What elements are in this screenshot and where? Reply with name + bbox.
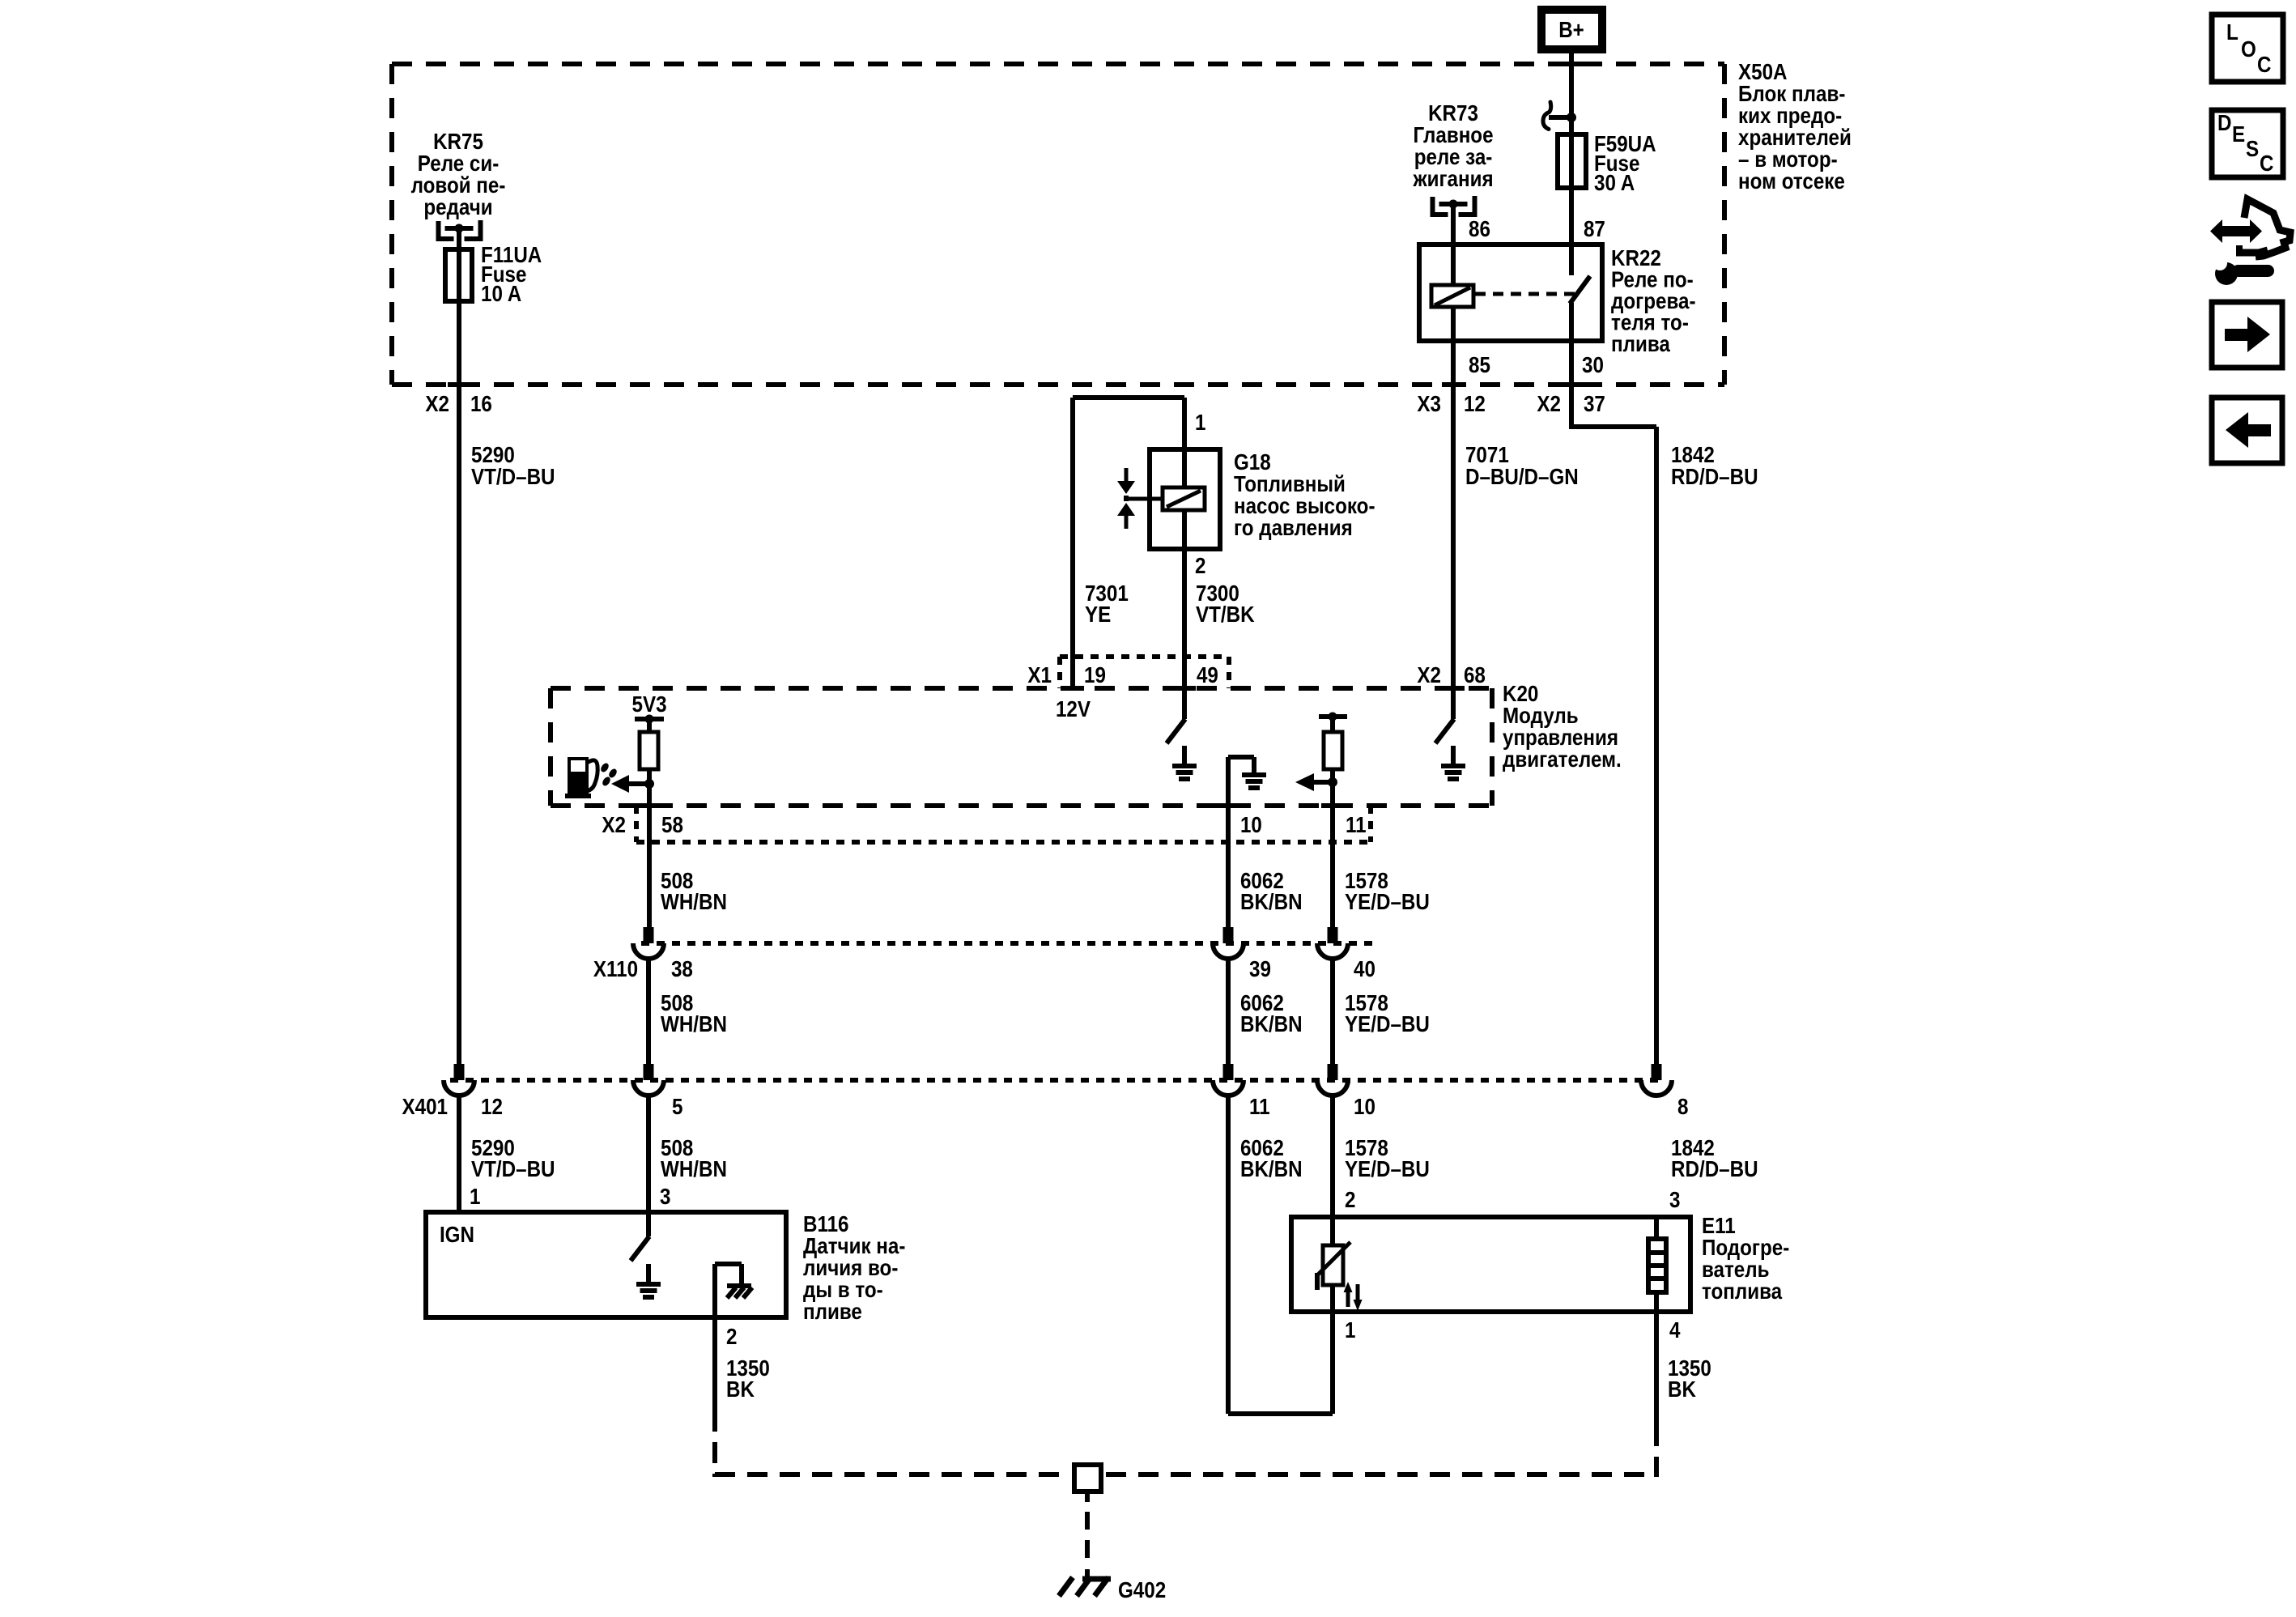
K20 low-side driver switch pin 49 xyxy=(1182,688,1187,719)
svg-text:L: L xyxy=(2226,21,2239,45)
svg-text:BK/BN: BK/BN xyxy=(1240,1158,1303,1182)
svg-text:G18: G18 xyxy=(1234,451,1271,475)
svg-text:насос высоко-: насос высоко- xyxy=(1234,495,1375,519)
svg-text:O: O xyxy=(2241,38,2256,62)
svg-text:X50A: X50A xyxy=(1738,61,1788,85)
svg-text:VT/D–BU: VT/D–BU xyxy=(471,466,555,490)
svg-text:2: 2 xyxy=(726,1326,737,1350)
svg-text:WH/BN: WH/BN xyxy=(661,891,727,915)
svg-text:87: 87 xyxy=(1584,218,1605,242)
svg-text:19: 19 xyxy=(1084,664,1106,688)
svg-text:Главное: Главное xyxy=(1414,124,1494,148)
svg-text:RD/D–BU: RD/D–BU xyxy=(1671,1158,1758,1182)
svg-text:E11: E11 xyxy=(1702,1215,1736,1239)
svg-text:30: 30 xyxy=(1582,354,1604,378)
inline connector X110 xyxy=(641,941,1376,946)
wire 7300 G18 to K20 pin 49 xyxy=(1182,549,1187,688)
fuel pump G18 wire loop xyxy=(1073,395,1184,400)
relay coil feed symbol KR75 xyxy=(439,221,454,239)
ground inside K20 pin 10 xyxy=(1242,772,1266,777)
svg-text:ном отсеке: ном отсеке xyxy=(1738,170,1845,194)
ground inside B116 xyxy=(646,1264,651,1284)
svg-text:11: 11 xyxy=(1346,814,1367,838)
svg-text:X401: X401 xyxy=(402,1096,447,1120)
relay coil feed symbol KR73 xyxy=(1433,197,1448,215)
svg-text:X2: X2 xyxy=(1537,393,1561,417)
svg-text:2: 2 xyxy=(1345,1189,1355,1213)
B116 internal switch xyxy=(646,1212,651,1236)
svg-text:BK: BK xyxy=(1668,1378,1696,1402)
svg-text:1: 1 xyxy=(470,1185,480,1210)
svg-text:YE: YE xyxy=(1085,603,1111,628)
svg-text:39: 39 xyxy=(1249,958,1271,982)
water-in-fuel sensor B116 box xyxy=(426,1212,786,1317)
thermistor symbol E11 xyxy=(1330,1217,1335,1245)
svg-text:D: D xyxy=(2217,112,2231,136)
ground inside K20 under pin 49 xyxy=(1182,746,1187,766)
svg-text:догрева-: догрева- xyxy=(1611,290,1695,314)
battery B+ terminal xyxy=(1541,10,1602,49)
svg-text:B+: B+ xyxy=(1558,19,1584,43)
svg-text:12: 12 xyxy=(1464,393,1486,417)
fuse block X50A dashed box xyxy=(392,62,1724,66)
svg-text:BK/BN: BK/BN xyxy=(1240,891,1303,915)
svg-text:E: E xyxy=(2232,123,2245,147)
svg-text:двигателем.: двигателем. xyxy=(1503,748,1622,772)
svg-text:58: 58 xyxy=(661,814,683,838)
svg-text:5290: 5290 xyxy=(471,444,515,468)
svg-text:Реле си-: Реле си- xyxy=(418,152,500,177)
svg-text:37: 37 xyxy=(1584,393,1605,417)
svg-text:2: 2 xyxy=(1195,555,1205,579)
svg-text:теля то-: теля то- xyxy=(1611,311,1689,335)
pump motor symbol xyxy=(1182,449,1187,487)
wire 508 X110 to X401 xyxy=(646,959,651,1064)
svg-text:YE/D–BU: YE/D–BU xyxy=(1345,1158,1430,1182)
svg-text:B116: B116 xyxy=(803,1213,848,1237)
dashed wire 1350 right xyxy=(1654,1425,1659,1477)
svg-text:10: 10 xyxy=(1240,814,1262,838)
junction dot pin 11 xyxy=(1328,777,1337,787)
svg-text:реле за-: реле за- xyxy=(1414,146,1493,170)
chassis ground symbol B116 xyxy=(727,1283,751,1288)
K20 ground hook pin 10 xyxy=(1228,755,1254,760)
svg-text:10 A: 10 A xyxy=(481,283,521,307)
svg-text:хранителей: хранителей xyxy=(1738,126,1852,151)
fuel heater E11 box xyxy=(1291,1217,1690,1312)
svg-text:WH/BN: WH/BN xyxy=(661,1158,727,1182)
relay KR22 box xyxy=(1419,245,1602,341)
svg-text:K20: K20 xyxy=(1503,683,1538,707)
junction dot pin 58 wire xyxy=(644,779,654,789)
svg-text:ватель: ватель xyxy=(1702,1258,1770,1283)
forward arrow box xyxy=(2212,302,2282,368)
svg-text:WH/BN: WH/BN xyxy=(661,1013,727,1037)
svg-text:16: 16 xyxy=(470,393,492,417)
splice S-box xyxy=(1074,1465,1101,1491)
relay KR22 switch xyxy=(1569,188,1574,275)
svg-text:10: 10 xyxy=(1354,1096,1375,1120)
svg-text:5: 5 xyxy=(672,1096,682,1120)
dashed wire 1350 to ground bus xyxy=(712,1411,717,1477)
svg-text:ких предо-: ких предо- xyxy=(1738,104,1842,129)
svg-text:VT/BK: VT/BK xyxy=(1196,603,1255,628)
B116 chassis ground hook xyxy=(715,1262,742,1266)
svg-text:86: 86 xyxy=(1469,218,1490,242)
svg-text:X2: X2 xyxy=(1417,664,1441,688)
wire B+ down to fuse F59UA xyxy=(1569,49,1574,134)
wire 5290 from F11UA down xyxy=(457,301,461,1064)
svg-text:1: 1 xyxy=(1195,411,1205,436)
svg-text:KR22: KR22 xyxy=(1611,247,1661,271)
LOC navigation box xyxy=(2212,15,2283,82)
svg-text:RD/D–BU: RD/D–BU xyxy=(1671,466,1758,490)
back arrow box xyxy=(2212,398,2282,463)
svg-text:X110: X110 xyxy=(593,958,638,982)
svg-text:X1: X1 xyxy=(1027,664,1052,688)
svg-text:12: 12 xyxy=(481,1096,503,1120)
wire 5290 to B116 pin 1 xyxy=(457,1096,461,1212)
svg-text:Топливный: Топливный xyxy=(1234,473,1346,497)
svg-text:YE/D–BU: YE/D–BU xyxy=(1345,1013,1430,1037)
svg-text:BK: BK xyxy=(726,1378,755,1402)
svg-text:X2: X2 xyxy=(602,814,626,838)
repair info icon hand with wrench xyxy=(2221,226,2251,236)
junction dot at B+ wire xyxy=(1567,113,1576,122)
svg-text:3: 3 xyxy=(1669,1189,1680,1213)
ground inside K20 under pin 68 xyxy=(1451,746,1456,766)
svg-text:30 A: 30 A xyxy=(1594,172,1635,196)
svg-text:1: 1 xyxy=(1345,1319,1355,1343)
svg-text:85: 85 xyxy=(1469,354,1490,378)
wire 1578 to E11 pin 2 xyxy=(1330,1096,1335,1217)
svg-text:D–BU/D–GN: D–BU/D–GN xyxy=(1465,466,1579,490)
fuse F59UA 30 A xyxy=(1558,134,1586,188)
svg-text:1842: 1842 xyxy=(1671,444,1715,468)
ground bus dashed xyxy=(715,1472,1069,1477)
ECM K20 dashed box xyxy=(551,686,1492,691)
svg-text:8: 8 xyxy=(1677,1096,1688,1120)
dashed wire to G402 xyxy=(1085,1494,1090,1502)
wire 1578 X110 to X401 xyxy=(1330,959,1335,1064)
svg-text:Подогре-: Подогре- xyxy=(1702,1236,1789,1261)
svg-text:3: 3 xyxy=(660,1185,670,1210)
svg-text:5V3: 5V3 xyxy=(632,693,667,717)
svg-text:управления: управления xyxy=(1503,726,1618,751)
K20 low-side driver switch pin 68 xyxy=(1451,688,1456,719)
svg-text:12V: 12V xyxy=(1056,698,1091,722)
svg-text:редачи: редачи xyxy=(423,196,492,220)
wire E11 pin1 loop to 6062 xyxy=(1330,1312,1335,1414)
svg-text:Датчик на-: Датчик на- xyxy=(803,1235,905,1259)
svg-text:ловой пе-: ловой пе- xyxy=(411,174,506,198)
svg-text:C: C xyxy=(2257,53,2271,78)
wire 6062 X110 to X401 xyxy=(1226,959,1231,1064)
wire KR73 to pin 86 xyxy=(1451,204,1456,245)
svg-text:IGN: IGN xyxy=(440,1223,474,1248)
svg-text:ды в то-: ды в то- xyxy=(803,1279,883,1303)
K20 X2 connector strip bottom xyxy=(636,840,1371,845)
svg-text:68: 68 xyxy=(1464,664,1486,688)
svg-text:го давления: го давления xyxy=(1234,517,1353,541)
svg-text:G402: G402 xyxy=(1118,1579,1166,1603)
svg-text:топлива: топлива xyxy=(1702,1280,1783,1304)
svg-text:Блок плав-: Блок плав- xyxy=(1738,83,1845,107)
svg-text:YE/D–BU: YE/D–BU xyxy=(1345,891,1430,915)
check valve symbol xyxy=(1125,468,1129,481)
wire pin 85 down through X3 12 xyxy=(1451,341,1456,688)
svg-text:KR73: KR73 xyxy=(1428,102,1478,126)
arrow left at pin 11 resistor xyxy=(1313,780,1333,785)
svg-text:Реле по-: Реле по- xyxy=(1611,268,1694,292)
svg-text:– в мотор-: – в мотор- xyxy=(1738,148,1838,172)
fuel pump icon xyxy=(568,757,589,798)
ground G402 symbol xyxy=(1082,1577,1111,1582)
wire B116 pin 2 xyxy=(712,1264,717,1317)
svg-text:X3: X3 xyxy=(1417,393,1441,417)
fuse F11UA 10 A xyxy=(445,249,472,301)
heater element symbol E11 xyxy=(1654,1217,1659,1239)
fusible link curl xyxy=(1549,115,1571,120)
svg-text:40: 40 xyxy=(1354,958,1375,982)
K20 current sense resistor pin 11 xyxy=(1319,714,1347,719)
svg-text:KR75: KR75 xyxy=(433,130,483,155)
wire E11 pin 4 down xyxy=(1654,1312,1659,1425)
K20 X1 connector strip xyxy=(1060,654,1229,659)
svg-text:11: 11 xyxy=(1249,1096,1270,1120)
svg-text:49: 49 xyxy=(1197,664,1218,688)
inline connector X401 xyxy=(450,1078,1665,1083)
wire 30 jog right to 1842 xyxy=(1571,424,1656,429)
pull-up resistor 5V3 xyxy=(647,719,652,732)
svg-text:C: C xyxy=(2260,152,2273,177)
wire pin 58 down xyxy=(647,784,652,927)
svg-text:BK/BN: BK/BN xyxy=(1240,1013,1303,1037)
svg-text:VT/D–BU: VT/D–BU xyxy=(471,1158,555,1182)
svg-text:личия во-: личия во- xyxy=(803,1257,898,1281)
svg-text:пливе: пливе xyxy=(803,1300,862,1325)
relay KR22 coil xyxy=(1451,245,1456,285)
svg-text:7071: 7071 xyxy=(1465,444,1509,468)
wire 508 to B116 pin 3 xyxy=(646,1096,651,1212)
svg-text:плива: плива xyxy=(1611,333,1670,357)
fuel pump G18 box xyxy=(1150,449,1220,549)
svg-text:X2: X2 xyxy=(425,393,449,417)
svg-text:S: S xyxy=(2246,138,2259,162)
svg-text:4: 4 xyxy=(1669,1319,1681,1343)
relay KR22 link dashed xyxy=(1475,292,1576,296)
svg-text:жигания: жигания xyxy=(1413,168,1494,192)
svg-text:Модуль: Модуль xyxy=(1503,704,1579,729)
svg-text:38: 38 xyxy=(671,958,693,982)
up down arrows E11 xyxy=(1346,1289,1350,1307)
arrow to fuel pump icon xyxy=(627,781,649,786)
DESC navigation box xyxy=(2212,110,2283,177)
